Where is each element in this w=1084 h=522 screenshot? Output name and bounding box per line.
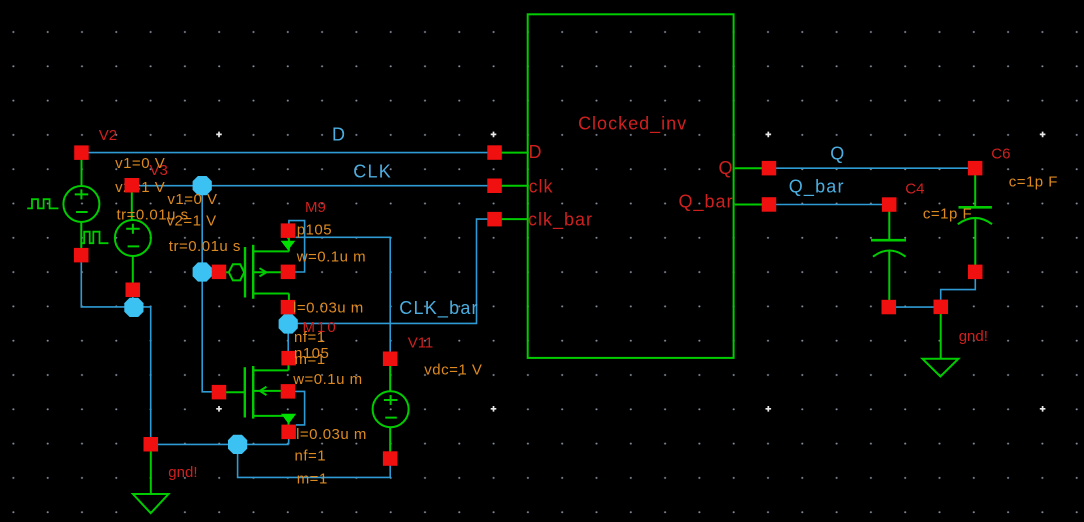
terminal pin clk_bar bbox=[487, 212, 502, 227]
terminal M9 source bbox=[281, 300, 296, 315]
label net gnd! left bbox=[168, 464, 197, 481]
terminal M10 gate bbox=[212, 385, 227, 400]
terminal M10 bulk bbox=[281, 384, 296, 399]
svg-text:M9: M9 bbox=[305, 199, 326, 216]
svg-text:w=0.1u m: w=0.1u m bbox=[292, 371, 362, 388]
net label D bbox=[332, 124, 346, 144]
svg-text:w=0.1u m: w=0.1u m bbox=[296, 249, 366, 266]
M10 bulk arrow triangle bbox=[281, 414, 296, 424]
pin label clk_bar bbox=[528, 210, 593, 231]
wire junction to gnd node bbox=[134, 307, 151, 438]
terminal C6 top bbox=[968, 161, 983, 176]
terminal M9 bulk bbox=[281, 265, 296, 280]
svg-text:v2=1 V: v2=1 V bbox=[115, 179, 165, 196]
value label V3 v2 bbox=[167, 213, 217, 230]
value label M10 model bbox=[294, 345, 329, 362]
svg-text:Q: Q bbox=[830, 144, 845, 164]
ground symbol left (gnd!) bbox=[133, 451, 169, 513]
label cell name Clocked_inv bbox=[578, 114, 687, 135]
junction VSS node bbox=[228, 435, 247, 454]
label instance V11 bbox=[408, 335, 434, 352]
svg-text:v2=1 V: v2=1 V bbox=[167, 213, 217, 230]
label instance V2 bbox=[99, 127, 117, 144]
capacitor C6 bbox=[958, 175, 992, 265]
pin label Q_bar bbox=[678, 192, 733, 213]
svg-text:clk: clk bbox=[529, 177, 554, 197]
wire net CLK_bar to clk_bar pin bbox=[288, 219, 488, 323]
net label CLK bbox=[353, 162, 392, 182]
svg-text:vdc=1 V: vdc=1 V bbox=[424, 362, 482, 379]
svg-text:V11: V11 bbox=[408, 335, 434, 352]
pin stub clk bbox=[502, 185, 529, 187]
svg-text:Q: Q bbox=[718, 158, 733, 178]
pin stub Q_bar bbox=[735, 204, 762, 206]
svg-text:nf=1: nf=1 bbox=[295, 448, 327, 465]
terminal gnd node right bbox=[934, 300, 949, 315]
wire net CLK bbox=[133, 185, 488, 187]
value label M9 w bbox=[296, 249, 366, 266]
svg-text:gnd!: gnd! bbox=[959, 328, 988, 345]
wire inverter output node bbox=[287, 307, 289, 358]
terminal V3 plus bbox=[125, 178, 140, 193]
svg-text:Q_bar: Q_bar bbox=[678, 192, 733, 213]
wire CLK vertical to M9/M10 gates bbox=[202, 186, 212, 392]
svg-text:C4: C4 bbox=[905, 181, 924, 198]
wire ground row bbox=[151, 439, 289, 445]
junction CLK_bar output node bbox=[279, 314, 298, 333]
svg-text:l=0.03u m: l=0.03u m bbox=[296, 426, 367, 443]
svg-text:Clocked_inv: Clocked_inv bbox=[578, 114, 687, 135]
svg-text:CLK_bar: CLK_bar bbox=[399, 298, 478, 319]
value label V3 v1 bbox=[167, 191, 217, 208]
Clocked_inv block outline bbox=[528, 14, 734, 358]
svg-text:gnd!: gnd! bbox=[168, 464, 197, 481]
value label V2 tr bbox=[117, 207, 189, 224]
wire C6 bottom to gnd node bbox=[941, 279, 976, 301]
pin stub D bbox=[502, 152, 529, 154]
terminal C4 top bbox=[882, 197, 897, 212]
terminal V3 plus (redrawn above labels) bbox=[125, 178, 140, 193]
wire net D bbox=[82, 152, 488, 154]
V2 pulse waveform glyph bbox=[27, 199, 58, 208]
value label M9 nf bbox=[294, 329, 326, 346]
value label M9 model bbox=[297, 221, 332, 238]
value label M9 l bbox=[293, 299, 364, 316]
value label M9 m bbox=[295, 351, 326, 368]
terminal V2 minus bbox=[74, 248, 89, 263]
label instance V3 bbox=[150, 162, 168, 179]
svg-text:Q_bar: Q_bar bbox=[789, 177, 845, 198]
svg-text:l=0.03u m: l=0.03u m bbox=[293, 299, 364, 316]
svg-text:D: D bbox=[529, 142, 543, 162]
value label V2 v1 bbox=[115, 155, 165, 172]
net label CLK_bar bbox=[399, 298, 478, 319]
value label V2 v2 bbox=[115, 179, 165, 196]
terminal pin Q bbox=[762, 161, 777, 176]
value label M10 w bbox=[292, 371, 362, 388]
svg-text:p105: p105 bbox=[297, 221, 332, 238]
ground symbol right (gnd!) bbox=[922, 314, 958, 377]
junction V2/V3 minus join bbox=[124, 298, 143, 317]
value label C6 c bbox=[1009, 174, 1058, 191]
net label Q bbox=[830, 144, 845, 164]
terminal pin D bbox=[487, 145, 502, 160]
terminal pin Q_bar bbox=[762, 197, 777, 212]
transistor M10 (nmos n105) bbox=[226, 365, 289, 425]
junction on CLK at V3 column bbox=[193, 176, 212, 195]
M9 bulk arrow triangle bbox=[281, 241, 296, 250]
value label M10 nf bbox=[295, 448, 327, 465]
svg-text:v1=0 V: v1=0 V bbox=[167, 191, 217, 208]
svg-text:nf=1: nf=1 bbox=[294, 329, 326, 346]
capacitor C4 bbox=[871, 211, 906, 300]
junction on CLK at M9 gate bbox=[193, 262, 212, 281]
wire V2 minus to junction bbox=[81, 255, 134, 307]
terminal V11 minus bbox=[383, 451, 398, 466]
svg-text:V2: V2 bbox=[99, 127, 117, 144]
terminal C4 bottom bbox=[882, 300, 897, 315]
svg-text:c=1p F: c=1p F bbox=[1009, 174, 1058, 191]
pin label clk bbox=[529, 177, 554, 197]
svg-text:CLK: CLK bbox=[353, 162, 392, 182]
voltage source V2 (vpulse) bbox=[63, 153, 99, 256]
value label C4 c bbox=[923, 205, 972, 222]
terminal gnd node left bbox=[144, 437, 159, 452]
wire V3 minus to junction bbox=[132, 290, 134, 307]
terminal pin clk bbox=[487, 179, 502, 194]
terminal M10 drain bbox=[281, 351, 296, 366]
pin stub clk_bar bbox=[502, 218, 529, 220]
svg-text:c=1p F: c=1p F bbox=[923, 205, 972, 222]
net label Q_bar bbox=[789, 177, 845, 198]
pin label Q bbox=[718, 158, 733, 178]
label instance C4 bbox=[905, 181, 924, 198]
pin stub Q bbox=[735, 167, 762, 169]
terminal M9 drain bbox=[281, 223, 296, 238]
wire M9 source-bulk tie bbox=[289, 221, 305, 272]
svg-text:C6: C6 bbox=[991, 146, 1010, 163]
terminal V3 minus bbox=[126, 283, 141, 298]
value label V3 tr bbox=[169, 238, 241, 255]
svg-text:clk_bar: clk_bar bbox=[528, 210, 593, 231]
label instance M9 bbox=[305, 199, 326, 216]
voltage source V11 (vdc) bbox=[373, 359, 409, 459]
label instance M10 bbox=[303, 319, 338, 336]
terminal M10 source bbox=[281, 425, 296, 440]
V3 pulse waveform glyph bbox=[82, 232, 108, 244]
value label M10 l bbox=[296, 426, 367, 443]
wire net Q_bar bbox=[769, 204, 889, 206]
wire M10 source-bulk tie bbox=[295, 391, 305, 425]
label instance C6 bbox=[991, 146, 1010, 163]
pin label D bbox=[529, 142, 543, 162]
svg-text:v1=0 V: v1=0 V bbox=[115, 155, 165, 172]
value label V11 vdc bbox=[424, 362, 482, 379]
svg-text:D: D bbox=[332, 124, 346, 144]
voltage source V3 (vpulse) bbox=[115, 185, 151, 289]
wire VDD to V11 plus bbox=[296, 237, 391, 352]
svg-text:tr=0.01u s: tr=0.01u s bbox=[169, 238, 241, 255]
transistor M9 (pmos p105) bbox=[226, 238, 289, 301]
wire net Q bbox=[769, 167, 975, 169]
svg-text:n105: n105 bbox=[294, 345, 329, 362]
terminal V2 plus bbox=[74, 145, 89, 160]
terminal M9 gate bbox=[212, 265, 227, 280]
wire C4 bottom to gnd node bbox=[889, 306, 941, 308]
terminal V11 plus bbox=[383, 352, 398, 367]
terminal C6 bottom bbox=[968, 265, 983, 280]
value label M10 m bbox=[297, 471, 328, 488]
svg-text:m=1: m=1 bbox=[297, 471, 328, 488]
wire VSS return to V11 minus bbox=[238, 444, 391, 477]
label net gnd! right bbox=[959, 328, 988, 345]
